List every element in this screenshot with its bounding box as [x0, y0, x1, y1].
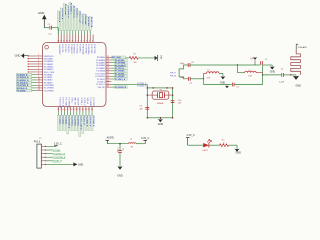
- svg-text:9: 9: [69, 40, 70, 42]
- svg-text:P2.1/RXD_B: P2.1/RXD_B: [86, 116, 88, 127]
- capacitor C2: [187, 77, 189, 81]
- top pin 6: [72, 35, 74, 43]
- svg-text:2: 2: [89, 40, 90, 42]
- right pin 4: [106, 64, 112, 66]
- svg-text:P1.3/DIO: P1.3/DIO: [97, 79, 105, 81]
- svg-text:P2.1/PWM1_: P2.1/PWM1_: [70, 116, 72, 128]
- svg-text:31: 31: [107, 72, 109, 74]
- top pin 2: [60, 35, 62, 43]
- svg-text:P2.2/PWM2: P2.2/PWM2: [44, 90, 54, 92]
- net label bottom pin 7: [76, 112, 78, 116]
- net label bottom pin 5: [70, 112, 72, 116]
- svg-text:ANT_RF: ANT_RF: [74, 98, 77, 106]
- svg-text:P3.2/TCK: P3.2/TCK: [61, 44, 63, 53]
- right pin 11: [106, 83, 112, 85]
- wire LED to R2: [209, 144, 220, 146]
- node crystal dots: [147, 87, 149, 89]
- left pin 14: [32, 90, 37, 92]
- svg-text:34: 34: [107, 80, 109, 82]
- net label top pin 6: [72, 31, 74, 35]
- top pin 9: [81, 35, 83, 43]
- svg-text:GND: GND: [296, 84, 302, 87]
- net label bottom pin 2: [61, 112, 63, 116]
- svg-text:P1.1/AIN11: P1.1/AIN11: [44, 63, 54, 66]
- net label left P1.7/SCK_B: [17, 81, 32, 84]
- svg-text:P3.4/T0CAP: P3.4/T0CAP: [81, 44, 84, 55]
- svg-text:23: 23: [85, 109, 87, 111]
- right pin 7: [106, 73, 112, 75]
- top pin 7: [75, 35, 77, 43]
- svg-text:GND: GND: [236, 152, 242, 155]
- svg-text:P1.6/MISO_1: P1.6/MISO_1: [70, 3, 72, 14]
- antenna ANT meander: [291, 49, 301, 75]
- capacitor C5: [119, 144, 121, 151]
- svg-text:AVDD: AVDD: [106, 136, 113, 140]
- net label top pin 9: [81, 31, 83, 35]
- svg-text:P0.0/AIN0: P0.0/AIN0: [17, 89, 26, 92]
- net label top pin 4: [66, 31, 68, 35]
- svg-text:25: 25: [107, 56, 109, 58]
- net label left RST/A05_B: [17, 87, 32, 90]
- svg-text:GND: GND: [38, 11, 44, 15]
- svg-text:VDD33/AV: VDD33/AV: [44, 57, 54, 60]
- top pin 8: [78, 35, 80, 43]
- svg-text:P0.0/AIN0: P0.0/AIN0: [44, 73, 53, 76]
- svg-text:XT32M_O: XT32M_O: [96, 84, 105, 86]
- bottom pin 8: [79, 107, 81, 112]
- net label bottom pin 11: [88, 112, 90, 116]
- left pin 13: [32, 87, 37, 89]
- svg-text:C10: C10: [178, 100, 181, 102]
- svg-text:17: 17: [66, 109, 68, 111]
- svg-text:RF_N: RF_N: [170, 76, 176, 78]
- svg-text:35: 35: [107, 83, 109, 85]
- right pin 5: [106, 67, 112, 69]
- node junction antenna line: [262, 74, 263, 75]
- net flag RST: [155, 56, 158, 61]
- svg-text:P2.7/PWM7: P2.7/PWM7: [84, 44, 86, 54]
- svg-text:GND: GND: [220, 81, 226, 84]
- svg-text:11: 11: [63, 40, 65, 42]
- svg-text:P2.6/PWM6: P2.6/PWM6: [87, 44, 89, 54]
- inductor L2: [203, 73, 205, 84]
- ground GND below antenna: [295, 74, 297, 77]
- svg-text:6: 6: [77, 40, 78, 42]
- svg-text:19: 19: [73, 109, 75, 111]
- svg-text:GND: GND: [78, 163, 84, 166]
- svg-text:P2.3/PWM3: P2.3/PWM3: [68, 98, 70, 108]
- wire C1 to gnd: [262, 64, 272, 66]
- svg-text:P3.3/INT1: P3.3/INT1: [79, 44, 81, 53]
- wire RF bottom jog: [179, 77, 188, 79]
- connector pin 3: [41, 153, 45, 155]
- svg-text:15: 15: [60, 109, 62, 111]
- svg-text:LED1: LED1: [203, 150, 209, 152]
- svg-text:26: 26: [107, 59, 109, 61]
- svg-text:P3.3/INT1_: P3.3/INT1_: [75, 8, 77, 19]
- bottom pin 2: [61, 107, 63, 112]
- svg-text:20: 20: [76, 109, 78, 111]
- right pin 9: [106, 78, 112, 80]
- net label left P2.0/PWM_B: [17, 84, 32, 87]
- node junction L2: [203, 78, 204, 79]
- svg-text:VSS_1: VSS_1: [71, 98, 73, 104]
- svg-text:32MHz: 32MHz: [157, 103, 164, 105]
- svg-text:VSS_RF: VSS_RF: [97, 87, 105, 89]
- svg-text:8: 8: [72, 40, 73, 42]
- capacitor C3: [231, 83, 233, 87]
- top pin 11: [86, 35, 88, 43]
- svg-text:14: 14: [38, 89, 40, 91]
- svg-text:P3.7/CAP2: P3.7/CAP2: [65, 98, 68, 107]
- svg-text:P1.3/DIO_A: P1.3/DIO_A: [115, 78, 126, 81]
- svg-text:P3.5/T1CAP: P3.5/T1CAP: [58, 98, 61, 109]
- left pin 9: [32, 76, 37, 78]
- svg-text:16pF: 16pF: [180, 77, 185, 79]
- net label right pin 3: [112, 62, 115, 64]
- svg-text:GND: GND: [270, 70, 276, 73]
- svg-text:XT32M_N: XT32M_N: [137, 86, 147, 88]
- svg-text:3: 3: [86, 40, 87, 42]
- net label top pin 3: [63, 31, 65, 35]
- wire L2 to gnd: [219, 72, 223, 74]
- net label bottom pin 9: [82, 112, 84, 116]
- net label top pin 5: [69, 31, 71, 35]
- svg-text:P0.2/AIN2: P0.2/AIN2: [44, 79, 53, 82]
- right pin 12: [106, 86, 112, 88]
- net label top pin 10: [83, 31, 85, 35]
- svg-text:13: 13: [57, 40, 59, 42]
- svg-text:4: 4: [83, 40, 84, 42]
- inductor L3: [245, 71, 257, 73]
- net label right pin 12: [112, 86, 115, 88]
- LED LED1: [203, 143, 209, 147]
- bottom pin 3: [64, 107, 66, 112]
- bottom pin 6: [73, 107, 75, 112]
- svg-text:22: 22: [82, 109, 84, 111]
- wire RF top jog: [179, 65, 188, 69]
- svg-text:3.3V_C: 3.3V_C: [186, 134, 195, 137]
- svg-text:1: 1: [92, 40, 93, 42]
- left pin 2: [29, 58, 43, 60]
- left pin 3: [29, 60, 43, 62]
- left pin 11: [32, 82, 37, 84]
- net label top pin 7: [75, 31, 77, 35]
- node top rail junction: [237, 64, 238, 65]
- capacitor C4: [281, 73, 283, 77]
- svg-text:P0.5/AIN5: P0.5/AIN5: [96, 62, 105, 65]
- net label right pin 4: [112, 64, 115, 66]
- ground tap below rail: [226, 85, 228, 86]
- net label bottom pin 6: [73, 112, 75, 116]
- net label right pin 7: [112, 73, 115, 75]
- svg-text:2nH: 2nH: [207, 77, 211, 79]
- svg-text:GND: GND: [158, 123, 164, 126]
- resistor R1: [129, 57, 138, 60]
- svg-text:104: 104: [48, 34, 51, 36]
- net label top pin 11: [86, 31, 88, 35]
- svg-text:VSS/VDDIO: VSS/VDDIO: [58, 44, 60, 55]
- svg-text:P2.6/PWM6_: P2.6/PWM6_: [84, 14, 86, 26]
- top pin 5: [69, 35, 71, 43]
- ground GND mid: [220, 76, 225, 79]
- svg-text:P0.6/AIN6: P0.6/AIN6: [96, 64, 105, 67]
- bottom pin 9: [82, 107, 84, 112]
- svg-text:2.4G ANT: 2.4G ANT: [298, 46, 308, 49]
- svg-text:R0: R0: [131, 146, 133, 148]
- connector pin 4: [41, 156, 45, 158]
- svg-text:P3.0/SWCLK: P3.0/SWCLK: [115, 87, 127, 89]
- svg-text:P2.2/TXD_B: P2.2/TXD_B: [89, 116, 91, 127]
- net label conn INT1/A2: [45, 149, 52, 151]
- svg-text:C8: C8: [140, 106, 142, 108]
- net label left P1.6/MISO_B: [17, 79, 32, 82]
- bottom pin 7: [76, 107, 78, 112]
- net label conn RESET_B: [45, 160, 52, 162]
- svg-text:P1.2/RXD0: P1.2/RXD0: [95, 76, 104, 78]
- net label right pin 5: [112, 67, 115, 69]
- ground GND crystal: [159, 118, 161, 119]
- left pin 6: [29, 68, 43, 70]
- wire bottom rail: [204, 84, 232, 86]
- svg-text:21: 21: [79, 109, 81, 111]
- capacitor C8 (crystal left): [145, 106, 149, 108]
- svg-text:P1.2/AIN12: P1.2/AIN12: [44, 65, 54, 68]
- wire gnd to C9: [44, 27, 49, 29]
- right pin 6: [106, 70, 112, 72]
- connector pin 6: [41, 163, 45, 165]
- right pin 3: [106, 62, 112, 64]
- svg-text:28: 28: [107, 64, 109, 66]
- svg-text:10: 10: [66, 40, 68, 42]
- svg-text:25: 25: [91, 109, 93, 111]
- svg-text:VDD_A: VDD_A: [86, 98, 89, 105]
- ground GND below C5: [117, 166, 122, 169]
- node AVDD junction: [119, 143, 121, 145]
- node antenna junction: [290, 74, 291, 75]
- top pin 4: [66, 35, 68, 43]
- svg-text:P1.3/AIN13: P1.3/AIN13: [44, 68, 54, 71]
- IC U1 body: [43, 43, 107, 107]
- svg-text:P0.1/AIN1: P0.1/AIN1: [44, 76, 53, 79]
- net label top pin 12: [89, 31, 91, 35]
- left pin 4: [29, 63, 43, 65]
- bottom pin 4: [67, 107, 69, 112]
- svg-text:P3.7/CAP_B: P3.7/CAP_B: [92, 116, 95, 127]
- svg-text:P2.3/PWM3_: P2.3/PWM3_: [77, 116, 79, 128]
- connector pin 2: [41, 149, 45, 151]
- wire to R1: [126, 57, 130, 59]
- connector pin 1: [41, 145, 45, 147]
- capacitor C9: [49, 26, 51, 30]
- right pin 1: [106, 56, 112, 58]
- svg-text:P3.6/T1_B: P3.6/T1_B: [83, 116, 85, 126]
- svg-text:RST/A0S: RST/A0S: [97, 56, 106, 59]
- capacitor C1: [260, 61, 262, 64]
- net label right pin 6: [112, 70, 115, 72]
- svg-text:P2.0/PWM0_B: P2.0/PWM0_B: [67, 116, 69, 129]
- svg-text:P1.0/AIN10: P1.0/AIN10: [44, 60, 54, 63]
- net label bottom pin 4: [67, 112, 69, 116]
- net label bottom pin 8: [79, 112, 81, 116]
- svg-text:30: 30: [107, 69, 109, 71]
- svg-text:16pF: 16pF: [180, 63, 185, 65]
- net label bottom pin 10: [85, 112, 87, 116]
- net label top pin 1: [57, 31, 59, 35]
- bottom pin 12: [91, 107, 93, 112]
- svg-text:P?: P?: [39, 138, 41, 140]
- wire R1 to flag: [138, 57, 154, 59]
- svg-text:7: 7: [75, 40, 76, 42]
- svg-text:36: 36: [107, 86, 109, 88]
- wire antenna line: [263, 74, 281, 76]
- net label conn IP110/SCL_B: [45, 153, 52, 155]
- svg-text:P2.7/PWM7_: P2.7/PWM7_: [81, 14, 83, 26]
- svg-text:P1.1/TXD0: P1.1/TXD0: [96, 73, 105, 75]
- top pin 12: [89, 35, 91, 43]
- svg-text:P1.6/MISO: P1.6/MISO: [73, 44, 75, 54]
- wire XT32M: [112, 83, 148, 85]
- svg-text:P2.5/T2EX: P2.5/T2EX: [87, 17, 89, 27]
- net label RST_N on R1 wire: [112, 56, 126, 59]
- svg-text:P0.7/AIN7: P0.7/AIN7: [96, 67, 105, 70]
- net label top pin 2: [60, 31, 62, 35]
- svg-text:2nH: 2nH: [248, 75, 252, 77]
- net label right pin 8: [112, 75, 115, 77]
- left pin 10: [32, 79, 37, 81]
- svg-text:RESET_B: RESET_B: [53, 161, 63, 163]
- left pin 5: [29, 66, 43, 68]
- crystal Y1: [152, 91, 169, 99]
- svg-text:P0.4/AIN4: P0.4/AIN4: [96, 59, 105, 62]
- wire R2 to gnd: [229, 144, 237, 146]
- svg-text:3.3V_C: 3.3V_C: [54, 143, 62, 146]
- right pin 2: [106, 59, 112, 61]
- svg-text:C5: C5: [121, 148, 123, 150]
- right pin 10: [106, 81, 112, 83]
- svg-text:18: 18: [70, 109, 72, 111]
- top pin 1: [57, 35, 59, 43]
- top pin 3: [63, 35, 65, 43]
- ground GND LED row: [235, 149, 240, 152]
- left pin 8: [32, 74, 37, 76]
- ground GND right of C1: [270, 66, 275, 69]
- svg-text:P1.4/SCS: P1.4/SCS: [67, 44, 69, 53]
- net label bottom pin 12: [91, 112, 93, 116]
- net flag ANT: [295, 44, 297, 49]
- svg-text:P1.5/MOSI: P1.5/MOSI: [70, 44, 72, 54]
- wire to crystal loop: [146, 84, 148, 88]
- left pin 12: [32, 84, 37, 86]
- net label conn IP110/SDA_B: [45, 156, 52, 158]
- resistor R2: [220, 144, 229, 147]
- net label left P1.5/MOSI_B: [17, 76, 32, 79]
- svg-text:2.2pF: 2.2pF: [279, 82, 285, 84]
- wire L3 branch: [237, 65, 239, 73]
- svg-text:VDD_RF: VDD_RF: [77, 98, 79, 106]
- bottom pin 11: [88, 107, 90, 112]
- svg-text:PH2.0: PH2.0: [34, 141, 41, 143]
- net label bottom pin 1: [58, 112, 60, 116]
- capacitor C10 (crystal right): [171, 100, 175, 102]
- inductor L1: [128, 143, 136, 144]
- svg-text:P2.1/RXD1: P2.1/RXD1: [89, 98, 91, 107]
- net label right pin 2: [112, 59, 115, 61]
- wire C9 to pin 13: [52, 27, 59, 29]
- wire AVDD row: [107, 143, 128, 145]
- svg-text:2.2uF: 2.2uF: [116, 148, 118, 154]
- connector pin 5: [41, 160, 45, 162]
- svg-text:XT32K_O: XT32K_O: [83, 98, 85, 107]
- svg-text:3.3V_C: 3.3V_C: [141, 137, 150, 140]
- svg-text:IP110/SCL_B: IP110/SCL_B: [53, 153, 66, 155]
- bottom pin 10: [85, 107, 87, 112]
- bottom pin 5: [70, 107, 72, 112]
- svg-text:P3.1/TDO: P3.1/TDO: [64, 44, 66, 53]
- capacitor C6: [187, 63, 189, 67]
- svg-text:P2.2/TXD1: P2.2/TXD1: [92, 98, 94, 107]
- wire to LED: [188, 144, 204, 146]
- wire top rail: [190, 64, 238, 66]
- svg-text:P2.4/T2CA: P2.4/T2CA: [93, 44, 96, 54]
- svg-text:P2.4/T2_CA: P2.4/T2_CA: [90, 17, 93, 28]
- svg-text:24: 24: [88, 109, 90, 111]
- right pin 8: [106, 75, 112, 77]
- top pin 10: [83, 35, 85, 43]
- svg-text:27: 27: [107, 61, 109, 63]
- net label left P1.4/A0S_B: [17, 73, 32, 76]
- wire RF vertical: [178, 69, 180, 77]
- svg-text:16: 16: [63, 109, 65, 111]
- wire crystal loop: [147, 88, 172, 118]
- left pin 1: [29, 55, 43, 57]
- svg-text:12: 12: [60, 40, 62, 42]
- net label bottom pin 3: [64, 112, 66, 116]
- svg-text:5: 5: [80, 40, 81, 42]
- svg-text:XT32K_I: XT32K_I: [80, 98, 82, 106]
- ground tap on rail: [254, 60, 256, 65]
- ground flag GND (connector): [45, 163, 73, 165]
- svg-text:P2.2/PWM2_: P2.2/PWM2_: [74, 116, 76, 128]
- svg-text:XT32M_P: XT32M_P: [137, 83, 147, 85]
- left pin 7: [29, 71, 43, 73]
- svg-text:29: 29: [107, 67, 109, 69]
- top pin 13: [92, 35, 94, 43]
- bottom pin 1: [58, 107, 60, 112]
- svg-text:P0.3/AIN3: P0.3/AIN3: [44, 81, 53, 84]
- wire C2 to junction: [190, 78, 203, 80]
- svg-text:RF_P: RF_P: [170, 72, 176, 74]
- svg-text:32: 32: [107, 75, 109, 77]
- net label top pin 8: [78, 31, 80, 35]
- net label right pin 9: [112, 78, 115, 80]
- svg-text:14: 14: [57, 109, 59, 111]
- wire C3 to corner: [234, 84, 263, 86]
- svg-text:P1.0/SDA: P1.0/SDA: [96, 70, 105, 73]
- svg-text:33: 33: [107, 78, 109, 80]
- svg-text:GND: GND: [15, 54, 21, 58]
- svg-text:P2.5/T2EX: P2.5/T2EX: [90, 44, 92, 54]
- svg-text:XT32M_I: XT32M_I: [97, 81, 105, 83]
- svg-text:GND: GND: [117, 175, 123, 178]
- svg-text:RST_N/A1: RST_N/A1: [112, 56, 121, 59]
- svg-text:P1.7/SCK0: P1.7/SCK0: [76, 44, 78, 53]
- power flag 3.3V_C (connector): [45, 145, 56, 147]
- net label left P0.0/AIN0: [17, 89, 32, 92]
